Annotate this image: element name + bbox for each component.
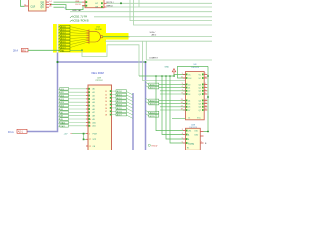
wire from IRQ port <box>28 49 60 51</box>
svg-text:11: 11 <box>105 91 107 93</box>
svg-text:A7: A7 <box>93 111 95 114</box>
output net long wire <box>129 36 213 38</box>
svg-text:RXD0⁄: RXD0⁄ <box>152 145 159 147</box>
U9 pin LR1 <box>182 129 191 132</box>
highlight block around gate U14 <box>53 24 106 53</box>
svg-text:A12: A12 <box>61 95 64 98</box>
svg-text:ACD5: ACD5 <box>150 115 155 118</box>
ROM pin A10 <box>58 88 95 91</box>
latch IC U8 body <box>186 72 205 120</box>
clock distribution horizontal <box>139 75 174 77</box>
svg-text:2: 2 <box>205 73 206 75</box>
svg-text:A9: A9 <box>61 118 63 121</box>
svg-text:9: 9 <box>205 93 206 95</box>
svg-text:1: 1 <box>89 134 90 136</box>
svg-text:Q0: Q0 <box>199 84 201 86</box>
address bus vertical with corner to label <box>27 24 58 132</box>
ROM pin A5 <box>58 111 95 114</box>
OC feed wire <box>174 74 186 76</box>
port box IRQ <box>22 48 29 52</box>
ROM pin A9 <box>58 118 95 121</box>
signal row PA4 <box>58 49 83 53</box>
U8 pin D0 <box>182 83 208 86</box>
svg-text:D1: D1 <box>188 88 190 90</box>
svg-text:5: 5 <box>182 138 183 140</box>
U9 pin C <box>182 142 190 145</box>
svg-text:D7: D7 <box>188 110 190 112</box>
CLK routing wire <box>178 66 209 78</box>
ROM pin A4 <box>58 108 95 111</box>
signal row ACD7 <box>58 42 90 49</box>
svg-text:RA13: RA13 <box>61 121 66 124</box>
power arrow near U8 <box>172 69 175 77</box>
wire QA net <box>54 1 83 3</box>
svg-text:15: 15 <box>205 102 207 104</box>
svg-text:ACD1: ACD1 <box>117 94 122 97</box>
svg-text:A5: A5 <box>93 105 95 108</box>
U8 pin D4 <box>181 99 208 102</box>
gate output wire <box>103 36 129 38</box>
svg-text:IRQ: IRQ <box>22 50 26 52</box>
vertical drop x130 <box>130 0 212 21</box>
svg-text:ACD0: ACD0 <box>117 90 122 93</box>
svg-text:D=xx: D=xx <box>8 131 15 134</box>
long wire y16.8 <box>94 16 212 18</box>
svg-text:Q6: Q6 <box>199 107 201 109</box>
ROM pin A12 <box>58 94 95 97</box>
long wire RST to right edge <box>107 2 213 4</box>
svg-text:22: 22 <box>89 146 91 148</box>
svg-text:15: 15 <box>105 104 107 106</box>
svg-text:ACD4: ACD4 <box>117 104 122 107</box>
U2 right pin stubs <box>104 3 107 7</box>
svg-text:A15: A15 <box>61 105 64 108</box>
plain wires to remaining U8 pins <box>160 91 186 110</box>
svg-text:D5: D5 <box>188 104 190 106</box>
latch IC U9 body <box>186 128 201 150</box>
svg-text:GND: GND <box>165 67 170 69</box>
svg-text:ACD3: ACD3 <box>150 103 155 106</box>
net hook and label RXD <box>148 144 158 147</box>
svg-text:28 A: 28 A <box>13 49 18 52</box>
svg-text:ACD2: ACD2 <box>150 99 155 102</box>
svg-text:A11: A11 <box>61 91 64 94</box>
svg-text:16: 16 <box>105 108 107 110</box>
svg-text:A4: A4 <box>61 108 63 111</box>
8-input NAND gate U14 <box>89 29 103 44</box>
junction dot on bus corner <box>145 61 147 63</box>
ROM data pin ACD7 <box>105 113 133 118</box>
ROM pin A15 <box>58 104 95 107</box>
wire QC short with no-connect <box>54 6 65 8</box>
svg-text:LN0: LN0 <box>195 131 198 133</box>
svg-text:A3: A3 <box>93 98 95 101</box>
wire to U1 CLR <box>21 0 25 6</box>
svg-text:3: 3 <box>182 129 183 131</box>
ROM pin A11 <box>58 91 95 94</box>
junction dot QB <box>50 4 52 6</box>
svg-text:A8: A8 <box>93 115 95 118</box>
branch down to COMRST <box>145 41 147 60</box>
svg-text:C1: C1 <box>188 117 190 119</box>
signal row ACD4 <box>58 37 90 41</box>
svg-text:A1: A1 <box>93 91 95 94</box>
ROM power pin stubs <box>86 134 88 146</box>
svg-text:RA15: RA15 <box>61 125 66 128</box>
data bus horizontal and right vertical <box>58 62 146 150</box>
ROM pin RA15 <box>58 125 96 128</box>
vertical feeds to U9 <box>156 76 184 131</box>
svg-text:Q1: Q1 <box>199 88 201 90</box>
bus tap label near U9 0 <box>146 110 159 114</box>
svg-text:+5V: +5V <box>64 134 68 136</box>
svg-text:Q3: Q3 <box>199 94 201 96</box>
bus tap label ACD1 for U8 <box>146 85 186 89</box>
svg-text:LINE: LINE <box>75 1 80 3</box>
svg-text:14: 14 <box>105 101 107 103</box>
U2 left pin numbers <box>75 1 81 6</box>
svg-text:18: 18 <box>105 115 107 117</box>
svg-text:PA4: PA4 <box>61 49 64 52</box>
U8 pin D2 <box>182 89 208 92</box>
signal row ACD6 <box>58 41 90 47</box>
signal row ACD3 <box>58 34 90 38</box>
ROM data pin ACD0 <box>105 90 133 95</box>
svg-text:17: 17 <box>105 111 107 113</box>
svg-text:LR1: LR1 <box>188 131 191 133</box>
svg-text:D3: D3 <box>188 94 190 96</box>
vertical drop x139 <box>138 0 140 7</box>
leader hooks for bus labels <box>70 16 72 21</box>
svg-text:D0: D0 <box>188 84 190 86</box>
bus tap label ACD3 for U8 <box>146 101 186 105</box>
svg-text:Q4: Q4 <box>199 100 201 102</box>
svg-text:ACD2: ACD2 <box>117 97 122 100</box>
ROM data pin ACD5 <box>105 107 133 112</box>
svg-text:A10: A10 <box>93 121 96 124</box>
ROM pin A8 <box>58 114 95 117</box>
signal row ACD0 <box>58 25 90 30</box>
svg-text:A4: A4 <box>93 101 95 104</box>
svg-text:ACD[I] ⁄ ROM B: ACD[I] ⁄ ROM B <box>72 19 89 22</box>
signal row ACD1 <box>58 28 90 32</box>
ROM data pin ACD2 <box>105 97 133 102</box>
svg-text:A13: A13 <box>61 98 64 101</box>
U1 CLR pin stub and number <box>24 4 29 6</box>
svg-text:A6: A6 <box>93 108 95 111</box>
svg-text:ACD6: ACD6 <box>117 110 122 113</box>
data bus vertical x133 <box>132 93 134 150</box>
highlight bar on gate output net <box>103 33 129 40</box>
svg-text:x: x <box>129 37 130 39</box>
loop wire two <box>143 41 186 80</box>
svg-text:Q7: Q7 <box>199 110 201 112</box>
U8 pin D5 <box>181 102 208 105</box>
svg-text:4: 4 <box>182 133 183 135</box>
U9 pin B <box>182 138 190 141</box>
ROM pin RA13 <box>58 121 96 124</box>
wire QB net stepped <box>50 5 85 10</box>
vertical wire x208 <box>204 66 209 131</box>
bus tap label ACD0 for U8 <box>146 82 186 86</box>
svg-text:12: 12 <box>105 94 107 96</box>
signal row ACD5 <box>58 39 90 44</box>
ROM IC U29 body <box>88 85 112 151</box>
ROM data pin ACD1 <box>105 93 133 98</box>
bus junction dot <box>56 61 58 63</box>
svg-text:AB 2: AB 2 <box>152 33 158 36</box>
svg-text:COMRST: COMRST <box>149 57 158 59</box>
U8 pin OC <box>182 73 208 76</box>
svg-text:CLR: CLR <box>31 5 36 8</box>
ROM pin A13 <box>58 98 95 101</box>
ROM pin A14 <box>58 101 95 104</box>
bus tap label ACD2 for U8 <box>146 98 186 102</box>
svg-text:7: 7 <box>201 141 202 143</box>
svg-text:A8: A8 <box>61 115 63 118</box>
svg-text:CD[BA]: CD[BA] <box>188 143 194 146</box>
svg-text:A14: A14 <box>61 101 64 104</box>
svg-text:1: 1 <box>182 73 183 75</box>
svg-text:12: 12 <box>205 77 207 79</box>
counter IC U1 <box>29 0 47 11</box>
svg-text:27C512: 27C512 <box>95 80 103 82</box>
ROM data pin ACD4 <box>105 103 133 108</box>
U8 pin D6 <box>181 105 208 108</box>
ROM data pin ACD6 <box>105 110 133 115</box>
svg-text:QC: QC <box>40 6 44 9</box>
svg-text:18: 18 <box>205 105 207 107</box>
svg-text:ACD4: ACD4 <box>150 112 155 115</box>
bus tap label near U9 1 <box>146 114 159 118</box>
svg-text:11: 11 <box>181 77 183 79</box>
svg-text:74C374: 74C374 <box>191 67 199 69</box>
svg-text:8: 8 <box>205 89 206 91</box>
svg-text:Q5: Q5 <box>199 104 201 106</box>
svg-text:ACD0: ACD0 <box>150 83 155 86</box>
svg-text:ACD[0..7] ⁄ PA: ACD[0..7] ⁄ PA <box>72 16 88 19</box>
svg-text:27: 27 <box>89 139 91 141</box>
long wire y11.7 <box>70 11 212 13</box>
svg-text:D4: D4 <box>188 100 190 102</box>
svg-text:A10: A10 <box>61 88 64 91</box>
bus segment appears light inside highlight <box>57 24 59 53</box>
junction dot on RST wire <box>120 2 122 4</box>
power +5V symbol <box>64 133 87 140</box>
svg-text:A[0..]: A[0..] <box>18 131 24 134</box>
svg-text:5: 5 <box>205 86 206 88</box>
ROM data pin ACD3 <box>105 100 133 105</box>
signal row ACD2 <box>58 31 90 35</box>
svg-text:CLK B: CLK B <box>75 4 81 6</box>
COMRST wire <box>146 59 212 61</box>
svg-text:14: 14 <box>205 99 207 101</box>
svg-text:13: 13 <box>105 98 107 100</box>
svg-text:4: 4 <box>205 83 206 85</box>
svg-text:PGM: PGM <box>93 134 98 136</box>
U1 pin numbers <box>49 1 52 8</box>
U2 left pin stubs <box>82 2 85 6</box>
svg-text:ACD3: ACD3 <box>117 100 122 103</box>
U1 right pin stubs <box>46 2 49 7</box>
vertical drop x133.5 <box>134 0 213 25</box>
svg-text:74LS30: 74LS30 <box>95 29 103 31</box>
svg-text:A0: A0 <box>93 88 95 91</box>
svg-text:A9: A9 <box>93 118 95 121</box>
svg-text:A2: A2 <box>93 94 95 97</box>
long wire y41.2 <box>105 40 212 42</box>
svg-text:ACD7: ACD7 <box>117 114 122 117</box>
U8 pin D3 <box>182 93 208 96</box>
svg-text:A5: A5 <box>61 111 63 114</box>
svg-text:ACD1: ACD1 <box>150 87 155 90</box>
U8 pin CLK <box>181 77 207 80</box>
staircase wire to U8 <box>82 45 139 76</box>
svg-text:E1: E1 <box>187 148 189 150</box>
svg-text:D6: D6 <box>188 107 190 109</box>
short wire below U8 <box>172 118 186 120</box>
svg-text:6: 6 <box>182 142 183 144</box>
junction dots on clock feed <box>155 75 157 77</box>
U8 pin D1 <box>182 86 208 89</box>
U9 right side pins <box>188 131 207 146</box>
svg-text:19: 19 <box>205 109 207 111</box>
svg-text:ACD5: ACD5 <box>117 107 122 110</box>
svg-text:Xilinx ROM: Xilinx ROM <box>91 72 104 75</box>
svg-text:A11: A11 <box>93 125 96 128</box>
decoder IC U2 <box>85 0 104 8</box>
U9 pin A <box>182 133 190 136</box>
U8 pin D7 <box>181 109 208 112</box>
junction dot PA4 <box>81 49 83 51</box>
svg-text:Q2: Q2 <box>199 91 201 93</box>
svg-text:D2: D2 <box>188 91 190 93</box>
long wire WR to right edge <box>107 6 213 8</box>
svg-text:DN0: DN0 <box>195 134 199 136</box>
